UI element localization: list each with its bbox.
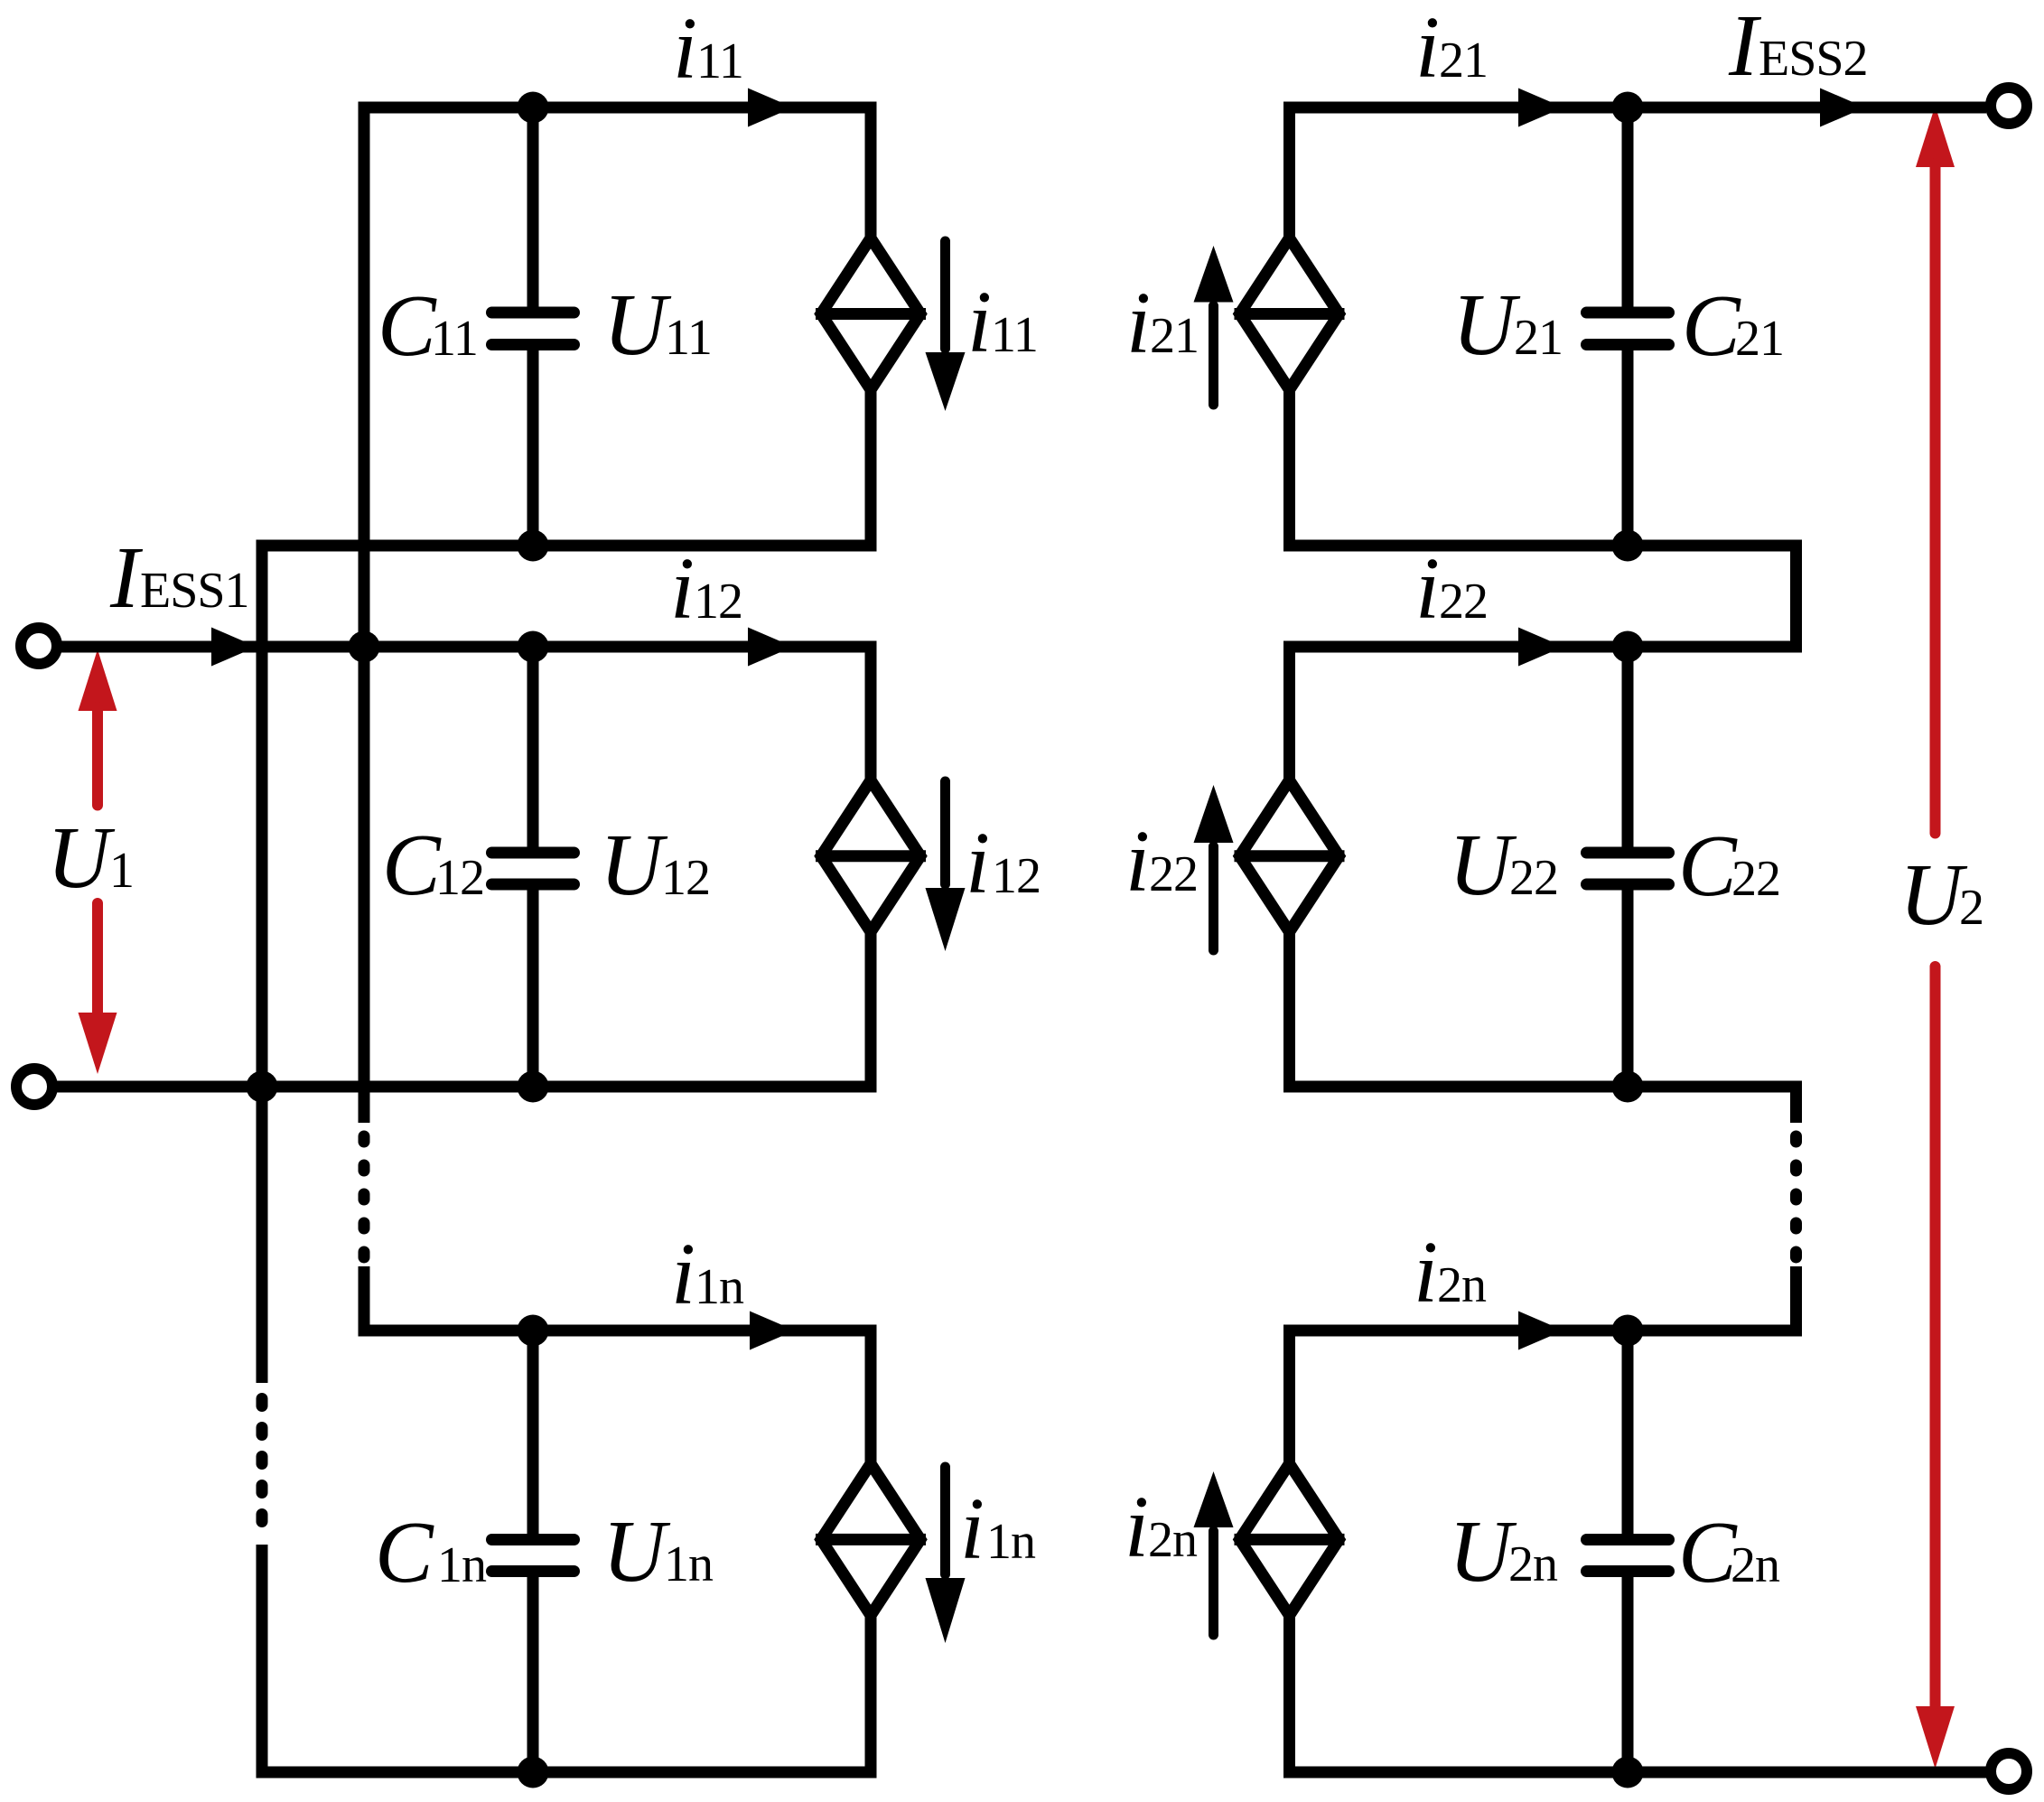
- arrowhead i22: [1518, 628, 1563, 667]
- svg-text:2n: 2n: [1148, 1512, 1198, 1568]
- label U12: [600, 817, 710, 913]
- label C12: [382, 817, 484, 913]
- wire left outer vertical x=290 (row1 bottom to lower rail): [257, 540, 268, 1384]
- svg-text:22: 22: [1439, 574, 1488, 630]
- wire dashed segment x=1988 between row22 and row 2n: [1790, 1136, 1802, 1257]
- capacitor C2n bottom lead: [1622, 1577, 1634, 1773]
- junction dot row1 top / C11: [518, 92, 549, 124]
- junction dot row1n bottom / C1n: [518, 1757, 549, 1788]
- capacitor C1n top lead: [527, 1330, 539, 1536]
- svg-text:C: C: [378, 277, 437, 374]
- svg-text:U: U: [1899, 846, 1968, 943]
- source i22 lower lead: [1283, 933, 1295, 1093]
- arrowhead i21 on top wire: [1518, 89, 1563, 127]
- label C11: [378, 277, 478, 374]
- svg-text:22: 22: [1731, 851, 1780, 907]
- arrowhead i2n: [1518, 1312, 1563, 1350]
- junction dot row1 bottom / C11: [518, 530, 549, 562]
- terminal ESS1 positive: [21, 628, 57, 664]
- wire x=1988 solid stub below row22 bottom: [1790, 1087, 1802, 1123]
- source i2n lower lead: [1283, 1617, 1295, 1779]
- wire row2n bottom (to terminal): [1283, 1767, 1986, 1779]
- label i21 (wire): [1415, 0, 1488, 96]
- svg-text:1n: 1n: [986, 1514, 1036, 1570]
- current arrow i22 (up) beside source: [1194, 785, 1234, 950]
- junction dot i12 wire / C12: [518, 631, 549, 663]
- capacitor C12: [492, 853, 574, 884]
- source i12 lower lead: [865, 933, 877, 1093]
- svg-text:2: 2: [1959, 880, 1983, 936]
- svg-text:C: C: [1682, 277, 1741, 374]
- label U22: [1449, 817, 1558, 913]
- current arrow i11 (down) beside source: [926, 241, 966, 411]
- svg-text:U: U: [1452, 276, 1521, 373]
- capacitor C2n top lead: [1622, 1330, 1634, 1536]
- label i11 (wire): [673, 0, 743, 97]
- svg-text:i: i: [1415, 540, 1440, 637]
- current arrow i12 (down) beside source: [926, 781, 966, 951]
- capacitor C12 bottom lead: [527, 890, 539, 1087]
- label C22: [1678, 817, 1780, 914]
- capacitor C21: [1587, 313, 1669, 345]
- svg-text:1n: 1n: [437, 1537, 487, 1593]
- wire dashed segment x=403 between row2 and row n: [359, 1136, 370, 1257]
- svg-text:U: U: [600, 817, 668, 913]
- label IESS2: [1728, 0, 1868, 94]
- svg-text:C: C: [382, 817, 442, 913]
- svg-text:11: 11: [431, 311, 478, 367]
- capacitor C1n: [492, 1540, 574, 1572]
- svg-text:21: 21: [1150, 308, 1199, 364]
- svg-text:i: i: [967, 274, 992, 370]
- controlled current source i12 (diamond): [816, 780, 926, 932]
- terminal ESS2 negative: [1991, 1753, 2027, 1789]
- svg-text:22: 22: [1149, 846, 1198, 902]
- svg-text:2n: 2n: [1508, 1536, 1558, 1592]
- svg-text:C: C: [1678, 1504, 1738, 1601]
- svg-text:C: C: [375, 1504, 434, 1601]
- svg-text:2n: 2n: [1731, 1537, 1780, 1593]
- label C1n: [375, 1504, 487, 1601]
- svg-text:i: i: [671, 1226, 695, 1322]
- label U11: [603, 276, 712, 373]
- label U2n: [1449, 1503, 1558, 1600]
- svg-text:1n: 1n: [664, 1536, 714, 1592]
- wire row1n bottom: [257, 1767, 872, 1779]
- junction dot rail / C12: [518, 1071, 549, 1103]
- svg-text:U: U: [47, 809, 116, 906]
- wire x=290 lower solid to row n bottom: [257, 1545, 268, 1779]
- svg-text:i: i: [960, 1480, 985, 1577]
- svg-text:12: 12: [992, 848, 1041, 904]
- svg-text:U: U: [1449, 1503, 1517, 1600]
- svg-text:I: I: [109, 529, 144, 626]
- junction dot i12 wire / x=403: [349, 631, 380, 663]
- junction dot row21 bottom / C21: [1612, 530, 1644, 562]
- source i1n lower lead: [865, 1617, 877, 1779]
- svg-text:i: i: [966, 815, 990, 911]
- junction dot row1n top / C1n: [518, 1315, 549, 1347]
- capacitor C11: [492, 313, 574, 345]
- source i22 upper lead: [1283, 641, 1295, 780]
- wire row21 top (i21 branch / IESS2): [1290, 102, 1987, 114]
- capacitor C21 top lead: [1622, 107, 1634, 308]
- label i21 (source): [1126, 275, 1199, 371]
- junction dot row2n top / C2n: [1612, 1315, 1644, 1347]
- svg-text:11: 11: [696, 33, 743, 89]
- capacitor C12 top lead: [527, 647, 539, 848]
- label C2n: [1678, 1504, 1780, 1601]
- label IESS1: [109, 529, 249, 626]
- svg-text:U: U: [603, 276, 672, 373]
- label i22 (wire): [1415, 540, 1488, 637]
- svg-text:11: 11: [991, 307, 1038, 363]
- svg-text:i: i: [1415, 0, 1440, 96]
- svg-text:i: i: [1125, 813, 1150, 910]
- junction dot row2n bottom / C2n: [1612, 1757, 1644, 1788]
- svg-text:C: C: [1678, 817, 1738, 914]
- svg-text:21: 21: [1514, 310, 1563, 366]
- label i1n (source): [960, 1480, 1036, 1577]
- arrowhead i11 on top wire: [748, 89, 793, 127]
- wire right vertical x=1988 row21-bottom to i22 wire: [1790, 546, 1802, 653]
- capacitor C21 bottom lead: [1622, 350, 1634, 546]
- svg-text:21: 21: [1735, 311, 1784, 367]
- svg-text:12: 12: [694, 574, 742, 630]
- svg-text:i: i: [1125, 1479, 1149, 1575]
- svg-text:1n: 1n: [695, 1259, 744, 1315]
- label U1: [47, 809, 134, 906]
- svg-text:11: 11: [665, 310, 712, 366]
- wire row1-left top (i11 branch): [364, 102, 871, 114]
- svg-text:I: I: [1728, 0, 1762, 94]
- label i1n (wire): [671, 1226, 744, 1322]
- controlled current source i2n (diamond): [1235, 1463, 1345, 1615]
- voltage arrow U2 (red double arrow): [1916, 106, 1955, 1769]
- source i2n upper lead: [1283, 1325, 1295, 1463]
- source i1n upper lead: [865, 1325, 877, 1463]
- svg-text:U: U: [602, 1503, 671, 1600]
- wire x=1988 lower solid to row 2n top: [1790, 1266, 1802, 1337]
- capacitor C2n: [1587, 1540, 1669, 1572]
- svg-text:i: i: [1414, 1224, 1438, 1321]
- wire lower rail left (terminal2 to diamond 12): [57, 1081, 871, 1093]
- svg-text:12: 12: [435, 850, 484, 906]
- svg-text:i: i: [1126, 275, 1151, 371]
- wire row1-left bottom: [257, 540, 872, 552]
- wire dashed segment x=290 between rail and row n bottom: [257, 1399, 268, 1522]
- svg-text:22: 22: [1509, 850, 1558, 906]
- source i21 lower lead: [1283, 391, 1295, 552]
- junction dot row22 bottom / C22: [1612, 1071, 1644, 1103]
- wire row21 bottom: [1283, 540, 1802, 552]
- svg-text:12: 12: [661, 850, 710, 906]
- arrowhead IESS2 near terminal: [1820, 89, 1865, 127]
- arrowhead i12: [748, 628, 793, 667]
- svg-text:ESS1: ESS1: [140, 563, 249, 619]
- label i22 (source): [1125, 813, 1198, 910]
- label i12 (wire): [670, 540, 742, 637]
- controlled current source i11 lower lead: [865, 391, 877, 552]
- svg-text:i: i: [670, 540, 695, 637]
- wire x=403 lower solid to row n top: [359, 1266, 370, 1337]
- wire cell11 left vertical (x=403, rows 1-2): [359, 102, 370, 1124]
- current arrow i1n (down) beside source: [926, 1467, 966, 1643]
- label U21: [1452, 276, 1563, 373]
- terminal ESS2 positive: [1991, 88, 2027, 124]
- label i11 (source): [967, 274, 1038, 370]
- capacitor C22 top lead: [1622, 647, 1634, 848]
- label i2n (wire): [1414, 1224, 1487, 1321]
- current arrow i21 (up) beside source: [1194, 246, 1234, 405]
- controlled current source i11 (diamond): [816, 238, 926, 390]
- wire IESS1 / i12 top (terminal to diamond): [61, 641, 871, 653]
- svg-text:2n: 2n: [1437, 1257, 1487, 1313]
- current arrow i2n (up) beside source: [1194, 1471, 1234, 1635]
- wire row22 bottom: [1283, 1081, 1802, 1093]
- label U2: [1899, 846, 1983, 943]
- label U1n: [602, 1503, 714, 1600]
- source i21 upper lead: [1283, 102, 1295, 238]
- junction dot row21 top / C21: [1612, 92, 1644, 124]
- wire i22 top: [1283, 641, 1802, 653]
- controlled current source i21 (diamond): [1235, 238, 1345, 390]
- arrowhead i1n: [750, 1312, 795, 1350]
- label i2n (source): [1125, 1479, 1198, 1575]
- svg-text:1: 1: [109, 843, 134, 899]
- terminal ESS1 negative: [16, 1069, 52, 1105]
- svg-text:U: U: [1449, 817, 1517, 913]
- capacitor C22 bottom lead: [1622, 890, 1634, 1087]
- arrowhead IESS1: [211, 628, 257, 667]
- label i12 (source): [966, 815, 1041, 911]
- controlled current source i11 upper lead: [865, 102, 877, 238]
- wire row2n top (i2n branch): [1290, 1325, 1803, 1337]
- voltage arrow U1 (red double arrow): [79, 649, 117, 1074]
- controlled current source i1n (diamond): [816, 1463, 926, 1615]
- controlled current source i22 (diamond): [1235, 780, 1345, 932]
- capacitor C11 bottom lead: [527, 350, 539, 546]
- capacitor C11 top lead: [527, 107, 539, 308]
- junction dot i22 wire / C22: [1612, 631, 1644, 663]
- svg-text:ESS2: ESS2: [1759, 31, 1868, 87]
- source i12 upper lead: [865, 641, 877, 780]
- svg-text:i: i: [673, 0, 697, 97]
- capacitor C1n bottom lead: [527, 1577, 539, 1773]
- svg-text:21: 21: [1439, 33, 1488, 89]
- wire row1n top (i1n branch): [364, 1325, 871, 1337]
- capacitor C22: [1587, 853, 1669, 884]
- label C21: [1682, 277, 1784, 374]
- junction dot rail / x=290: [247, 1071, 278, 1103]
